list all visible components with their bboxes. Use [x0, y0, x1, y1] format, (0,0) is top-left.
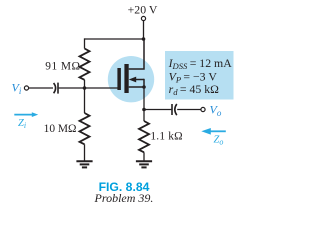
input terminal Vi	[24, 86, 28, 90]
capacitor C1	[54, 83, 56, 93]
supply terminal +20 V	[141, 16, 145, 20]
arrow Zi	[14, 112, 38, 117]
wire C1 to gate	[59, 87, 118, 89]
gate bar	[117, 68, 121, 90]
node supply junction	[142, 37, 146, 41]
wire R1 bottom to gate node	[84, 80, 86, 88]
source lead	[129, 86, 144, 88]
wire Vi to C1	[29, 87, 53, 89]
channel bar	[124, 64, 128, 93]
svg-text:Problem 39.: Problem 39.	[94, 191, 154, 205]
resistor 10 MΩ	[80, 113, 90, 144]
svg-text:10 MΩ: 10 MΩ	[44, 123, 77, 135]
node source junction	[142, 85, 146, 89]
wire C2 to Vo terminal	[177, 109, 201, 111]
transistor depletion MOSFET	[117, 40, 145, 93]
wire R2 bottom to ground	[84, 144, 86, 161]
node output junction	[142, 108, 146, 112]
output terminal Vo	[201, 107, 205, 111]
ground left	[76, 161, 92, 167]
resistor 1.1 kΩ	[139, 121, 149, 152]
drain lead	[129, 40, 144, 69]
svg-text:1.1 kΩ: 1.1 kΩ	[150, 131, 182, 143]
wire top rail	[85, 38, 144, 40]
capacitor C2	[171, 104, 173, 115]
wire rail to R1 top	[84, 38, 86, 48]
svg-text:+20 V: +20 V	[128, 3, 158, 17]
parameter info box	[165, 51, 234, 100]
svg-text:91 MΩ: 91 MΩ	[45, 60, 80, 72]
wire gate node down	[84, 88, 86, 113]
arrow Zo	[201, 128, 226, 135]
substrate arrow lead	[134, 79, 144, 81]
MOSFET background circle	[108, 56, 154, 102]
node gate junction	[83, 86, 87, 90]
wire source down to output node	[143, 87, 145, 110]
ground right	[136, 161, 152, 167]
wire supply drop	[143, 21, 145, 39]
wire output node to C2	[144, 109, 171, 111]
wire output node to RS	[143, 110, 145, 122]
resistor 91 MΩ	[80, 49, 90, 80]
wire RS bottom to ground	[143, 152, 145, 161]
